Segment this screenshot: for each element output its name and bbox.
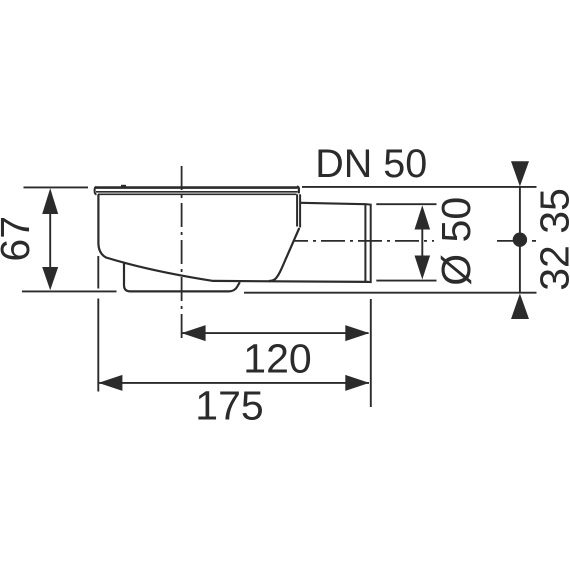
svg-text:67: 67 — [0, 216, 38, 262]
svg-text:DN 50: DN 50 — [315, 142, 427, 186]
svg-text:32 35: 32 35 — [532, 188, 570, 291]
svg-text:175: 175 — [195, 382, 263, 428]
svg-text:Ø 50: Ø 50 — [433, 197, 479, 286]
svg-text:120: 120 — [243, 336, 311, 382]
